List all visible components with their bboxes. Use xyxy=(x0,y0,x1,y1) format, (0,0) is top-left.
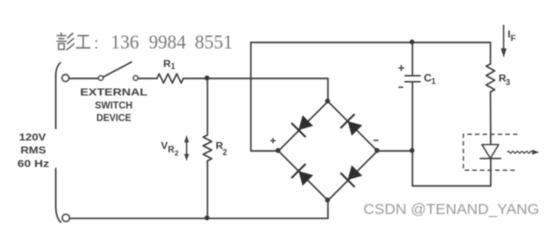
junction dot bridge bottom corner xyxy=(325,198,330,203)
wire negative node down and right to LED cathode xyxy=(412,151,490,186)
resistor R1 xyxy=(157,74,183,83)
junction dot C1 bottom node xyxy=(410,148,415,153)
svg-text:F: F xyxy=(511,33,516,43)
wire switch to R1 xyxy=(139,77,157,79)
switch pole circle xyxy=(98,76,103,81)
label minus bridge right xyxy=(374,139,379,141)
VR2 measurement double arrow xyxy=(186,141,188,155)
svg-text:120V: 120V xyxy=(19,133,46,144)
diode D1 top-left (points to left corner) xyxy=(291,115,313,137)
bottom rail xyxy=(70,200,328,218)
svg-text:2: 2 xyxy=(223,148,228,157)
resistor R3 xyxy=(486,64,495,92)
wire top rail down to bridge left corner xyxy=(251,42,279,151)
junction dot R2 bottom node xyxy=(205,215,210,220)
junction dot bridge top corner xyxy=(325,99,330,104)
diode D2 bottom-left (points to left corner) xyxy=(291,164,313,186)
resistor R2 xyxy=(203,135,212,161)
junction dot R1/R2 node xyxy=(205,76,210,81)
wire R3 to LED anode xyxy=(489,92,491,145)
bridge diamond edge bottom-left xyxy=(278,151,328,201)
bridge diamond edge bottom-right xyxy=(328,151,378,201)
AC source bracket top xyxy=(56,63,61,129)
junction dot bridge right corner xyxy=(375,148,380,153)
bridge diamond edge top-right xyxy=(328,101,378,151)
svg-text:SWITCH: SWITCH xyxy=(95,99,133,111)
label plus bridge left xyxy=(270,138,275,143)
junction dot C1 top node xyxy=(410,40,415,45)
svg-text:9984: 9984 xyxy=(149,31,186,53)
svg-text:3: 3 xyxy=(506,78,511,87)
R2 branch wire lower xyxy=(206,161,208,219)
watermark Chinese char gong xyxy=(77,36,90,48)
capacitor C1 bottom lead xyxy=(411,82,413,151)
svg-text:EXTERNAL: EXTERNAL xyxy=(80,87,147,98)
wire drop to bridge top corner xyxy=(327,78,329,101)
svg-text:60 Hz: 60 Hz xyxy=(17,159,49,170)
svg-text:V: V xyxy=(161,140,168,152)
junction dot bridge left corner xyxy=(276,148,281,153)
diode D3 top-right (points to top corner) xyxy=(341,114,363,136)
diode D4 bottom-right (points to bottom corner) xyxy=(341,165,363,187)
switch blade xyxy=(104,62,132,77)
svg-text:8551: 8551 xyxy=(195,31,233,53)
R2 branch wire upper xyxy=(206,78,208,135)
LED dashed package box xyxy=(463,134,517,170)
AC source bracket bottom xyxy=(56,168,61,222)
wire bridge right corner to C1 node xyxy=(377,150,412,152)
svg-text:DEVICE: DEVICE xyxy=(96,112,131,124)
capacitor C1 plates xyxy=(405,75,420,77)
svg-text:RMS: RMS xyxy=(21,146,47,157)
label plus C1 xyxy=(398,65,404,71)
terminal circle top xyxy=(62,75,69,82)
terminal circle bottom xyxy=(62,214,69,221)
bridge diamond edge top-left xyxy=(278,101,328,151)
svg-text:CSDN @TENAND_YANG: CSDN @TENAND_YANG xyxy=(363,202,539,218)
svg-text:1: 1 xyxy=(431,77,436,86)
LED light emission squiggle arrow xyxy=(507,151,532,153)
LED triangle xyxy=(482,145,499,159)
IF current arrow xyxy=(503,25,505,50)
capacitor C1 top lead xyxy=(411,42,413,75)
LED cathode bar xyxy=(480,158,502,160)
top rail xyxy=(251,41,491,43)
watermark Chinese char peng xyxy=(57,33,74,50)
svg-text:136: 136 xyxy=(111,31,139,53)
switch throw circle xyxy=(133,76,138,81)
label minus C1 xyxy=(398,86,403,88)
watermark fullwidth colon xyxy=(95,40,97,42)
svg-text:1: 1 xyxy=(171,62,176,71)
svg-text:2: 2 xyxy=(175,151,179,158)
wire top terminal to switch xyxy=(70,77,99,79)
wire R1 to bridge top drop xyxy=(183,77,328,79)
R3 top lead from rail xyxy=(489,42,491,64)
